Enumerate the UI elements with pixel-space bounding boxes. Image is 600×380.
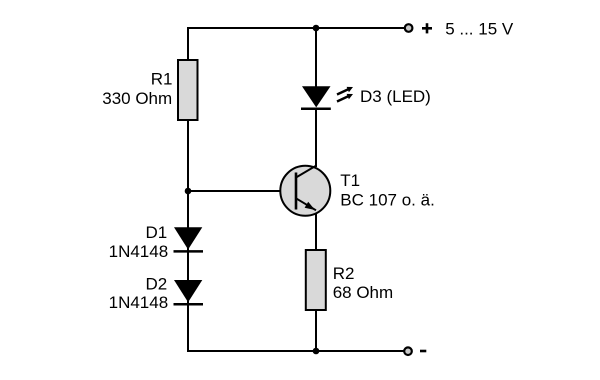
svg-text:R1: R1 [151,70,173,89]
svg-text:68 Ohm: 68 Ohm [333,283,393,302]
svg-text:BC 107 o. ä.: BC 107 o. ä. [340,190,435,209]
svg-text:D1: D1 [145,223,167,242]
svg-text:R2: R2 [333,264,355,283]
svg-text:1N4148: 1N4148 [109,242,169,261]
svg-text:D3 (LED): D3 (LED) [360,87,431,106]
svg-text:T1: T1 [340,171,360,190]
svg-text:D2: D2 [145,274,167,293]
svg-text:5 ... 15 V: 5 ... 15 V [445,19,514,38]
svg-text:330 Ohm: 330 Ohm [102,89,172,108]
svg-text:1N4148: 1N4148 [109,293,169,312]
